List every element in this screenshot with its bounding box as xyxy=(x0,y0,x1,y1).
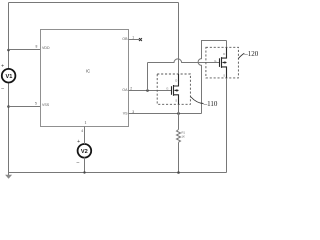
channel bar xyxy=(173,85,175,96)
svg-text:G: G xyxy=(214,59,216,63)
source link xyxy=(174,95,179,100)
wire GND pin down to V2 xyxy=(84,127,86,145)
svg-text:S: S xyxy=(223,73,225,77)
source link xyxy=(222,67,227,72)
svg-text:IC: IC xyxy=(86,69,90,74)
svg-text:–: – xyxy=(77,159,80,165)
svg-text:VDD: VDD xyxy=(42,46,50,50)
transistor Q2 (120) dashed enclosure xyxy=(206,47,239,78)
wire left rail lower (V1 - down to ground rail) xyxy=(8,83,10,176)
wire OB pin stub xyxy=(129,39,140,41)
svg-text:V1: V1 xyxy=(5,74,12,80)
wire vertical M120 drain branch down to VS wire xyxy=(198,41,226,114)
wire Q1 source stub inside box xyxy=(178,100,180,104)
wire Q2 drain stub xyxy=(226,47,228,52)
node junction dot V2/ground rail xyxy=(83,171,85,173)
svg-text:–: – xyxy=(1,86,4,92)
wire top rail V1+ to node above M110 drain xyxy=(9,2,179,4)
wire Q2 source stub xyxy=(226,72,228,78)
svg-text:OA: OA xyxy=(122,88,128,92)
node junction dot VSS tap on left rail xyxy=(7,105,10,108)
voltage source V2 xyxy=(77,139,92,165)
wire M110 drain up to top rail xyxy=(178,3,180,86)
wire M110 source down to resistor xyxy=(178,95,180,129)
wire VDD pin lead xyxy=(9,49,41,51)
svg-text:–120: –120 xyxy=(243,50,259,58)
svg-text:D: D xyxy=(223,52,225,56)
drain link xyxy=(222,53,227,59)
svg-text:D: D xyxy=(175,78,177,82)
svg-text:VS: VS xyxy=(123,112,128,116)
gate bar xyxy=(171,86,173,95)
svg-text:V2: V2 xyxy=(81,149,88,155)
svg-text:+: + xyxy=(1,64,4,70)
svg-text:8: 8 xyxy=(36,45,38,49)
body link with arrow xyxy=(175,89,179,91)
wire VSS pin lead xyxy=(9,106,41,108)
resistor R1 xyxy=(177,130,181,143)
svg-text:S: S xyxy=(175,99,177,103)
wire M120 source down to ground rail corner xyxy=(226,67,228,173)
drain link xyxy=(174,80,179,86)
voltage source V1 xyxy=(1,64,15,93)
svg-text:1: 1 xyxy=(132,35,134,39)
body link with arrow xyxy=(223,62,227,64)
label 120 leader line xyxy=(238,53,244,58)
channel bar xyxy=(221,57,223,68)
wire resistor to ground rail xyxy=(178,142,180,172)
ground arrow symbol xyxy=(5,175,12,179)
transistor Q2 MOSFET symbol xyxy=(220,53,227,73)
wire left rail upper (top rail down to V1 +) xyxy=(8,3,10,70)
node junction dot resistor/ground rail xyxy=(177,171,180,174)
wire bottom ground rail xyxy=(9,172,227,174)
svg-text:4: 4 xyxy=(81,129,83,133)
wire riser from OA node up to M120 gate wire xyxy=(147,63,149,91)
svg-text:2: 2 xyxy=(130,87,132,91)
wire Q1 drain stub inside box xyxy=(178,74,180,80)
wire gate feed to M120 with crossover hops xyxy=(148,59,220,63)
transistor Q1 MOSFET symbol xyxy=(172,80,179,100)
wire V2 down to ground rail xyxy=(84,157,86,172)
svg-text:VSS: VSS xyxy=(42,103,50,107)
node junction dot VDD tap on left rail xyxy=(7,49,10,52)
svg-text:+: + xyxy=(77,139,80,145)
svg-text:1K: 1K xyxy=(182,135,186,139)
svg-text:5: 5 xyxy=(35,101,37,105)
node junction dot OA riser xyxy=(146,89,149,92)
no-connect X on OB xyxy=(139,38,142,41)
wire OA pin to M110 gate xyxy=(129,90,172,92)
svg-text:OB: OB xyxy=(122,37,128,41)
svg-text:–110: –110 xyxy=(203,100,218,108)
label 110 leader line xyxy=(190,97,203,104)
svg-text:G: G xyxy=(166,87,168,91)
node junction dot VS / M110 source xyxy=(177,112,180,115)
gate bar xyxy=(219,58,221,67)
transistor Q1 (110) dashed enclosure xyxy=(157,74,190,104)
wire VS pin to corner under M120 xyxy=(129,113,202,115)
IC U1 box xyxy=(41,30,129,127)
